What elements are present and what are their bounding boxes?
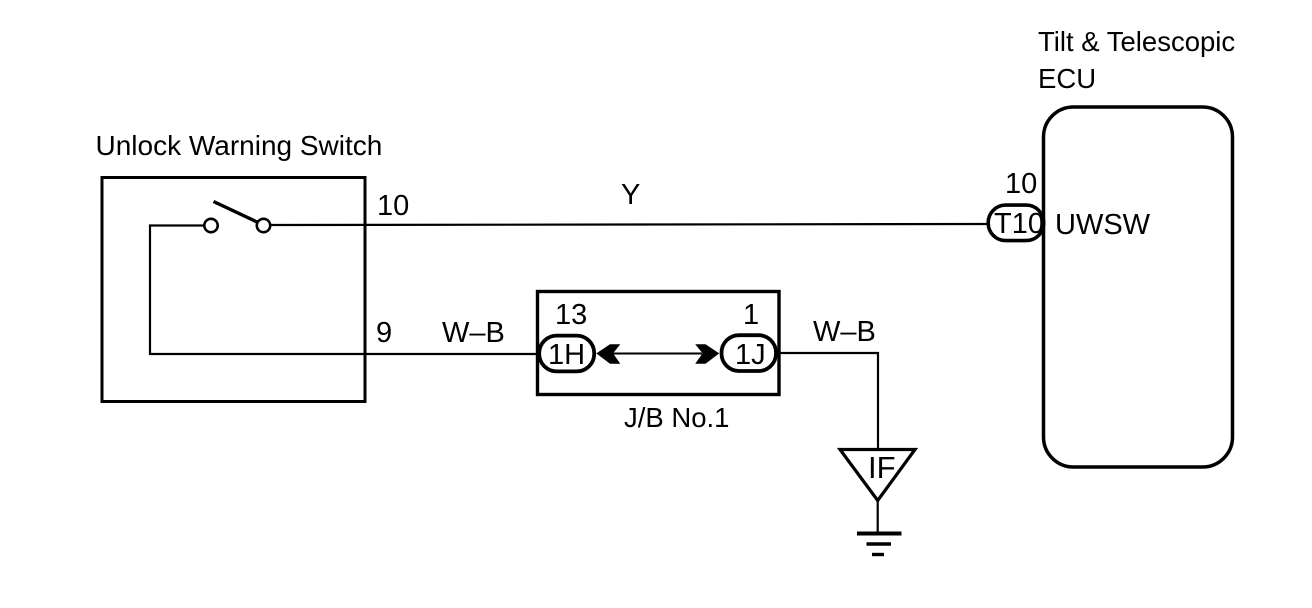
svg-text:9: 9	[376, 317, 392, 349]
svg-text:IF: IF	[868, 450, 896, 485]
svg-text:Unlock Warning Switch: Unlock Warning Switch	[96, 130, 383, 161]
svg-text:J/B No.1: J/B No.1	[624, 402, 729, 433]
svg-text:W–B: W–B	[442, 317, 505, 349]
svg-text:T10: T10	[994, 208, 1044, 240]
svg-text:ECU: ECU	[1038, 63, 1096, 94]
connector 1H	[539, 336, 594, 372]
connector T10	[988, 205, 1044, 241]
ground symbol	[857, 534, 902, 555]
switch S1	[204, 202, 270, 233]
arrow right (into 1J)	[695, 344, 719, 363]
switch box	[102, 178, 365, 402]
wire (1J to ground)	[778, 353, 878, 449]
svg-text:10: 10	[1005, 168, 1037, 200]
junction block J/B No.1 box	[538, 292, 780, 395]
svg-text:1J: 1J	[735, 339, 766, 371]
wire Y (pin10 to T10)	[271, 224, 989, 225]
svg-text:W–B: W–B	[813, 316, 876, 348]
svg-text:10: 10	[377, 190, 409, 222]
label Tilt & Telescopic ECU	[1038, 26, 1235, 94]
svg-text:1: 1	[743, 299, 759, 331]
svg-text:UWSW: UWSW	[1055, 209, 1151, 241]
svg-text:13: 13	[555, 299, 587, 331]
wire (triangle to ground)	[877, 501, 879, 534]
svg-text:Tilt & Telescopic: Tilt & Telescopic	[1038, 26, 1235, 57]
ECU box	[1044, 107, 1233, 467]
wire (between arrows)	[610, 353, 702, 355]
svg-text:Y: Y	[621, 179, 640, 211]
arrow left (into 1H)	[596, 344, 620, 363]
ground connector IF triangle	[840, 450, 915, 501]
wire (internal switch wiring)	[150, 226, 537, 355]
connector 1J	[722, 335, 777, 371]
svg-text:1H: 1H	[548, 339, 585, 371]
